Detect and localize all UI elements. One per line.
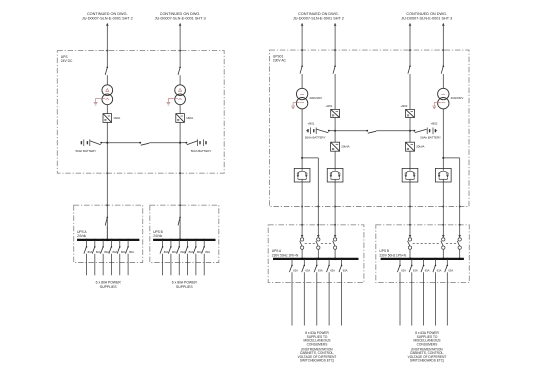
node wire crossing box edge (443.3,50.1)	[442, 49, 444, 51]
breaker 80A UPS A ckt3	[102, 240, 104, 247]
wire T2 to rectifier	[179, 105, 181, 114]
wire incoming feeder L2 with off-page arrow	[179, 23, 182, 26]
svg-text:63A: 63A	[425, 268, 430, 272]
breaker 80A UPS A ckt5	[119, 240, 121, 247]
svg-text:63A: 63A	[437, 268, 442, 272]
breaker 80A UPS A ckt6	[127, 240, 129, 247]
node wire crossing box edge (335.1,206.5)	[334, 206, 336, 208]
svg-text:+R01: +R01	[326, 104, 333, 108]
wire SI1 to panel	[334, 182, 336, 237]
switch battery +B02	[410, 130, 414, 132]
node wire crossing box edge (335.1,224.8)	[334, 224, 336, 226]
node busbar joint UPS A x302.1	[301, 258, 304, 261]
wire incoming AC feeder T2 with off-page arrow	[442, 23, 445, 26]
ground (transformer T2 neutral earth)	[168, 98, 178, 102]
wire outgoing UPS B ckt3	[423, 272, 425, 325]
breaker 63A UPS B ckt3	[423, 259, 425, 266]
breaker 80A UPS B ckt5	[195, 240, 197, 247]
switch battery +B01	[317, 129, 329, 132]
node busbar tap UPS B ckt6	[203, 239, 205, 241]
busbar UPS A 24Vdc	[77, 239, 139, 241]
wire outgoing UPS A ckt1	[86, 254, 88, 275]
wire outgoing UPS B ckt5	[195, 254, 197, 275]
node wire crossing box edge (410.0,224.8)	[409, 224, 411, 226]
node wire crossing box edge (180.1,50.6)	[179, 50, 181, 52]
wire outgoing UPS B ckt4	[435, 272, 437, 325]
node wire crossing box edge (107.3,50.6)	[106, 50, 108, 52]
wire TR02 to static switch	[442, 109, 444, 168]
wire outgoing UPS A ckt2	[94, 254, 96, 275]
battery BT1 50Ah	[80, 141, 82, 144]
node busbar tap UPS B ckt2	[411, 258, 413, 260]
disconnect switch AC feeder T1	[301, 65, 303, 67]
svg-text:63A: 63A	[343, 268, 348, 272]
wire interlock dashed UPS B Q1-Q2	[413, 242, 441, 244]
breaker 63A UPS B ckt4	[435, 259, 437, 266]
node wire crossing box edge (302.1,224.8)	[301, 224, 303, 226]
svg-text:JU-D0007-SLN-E-0001 SHT 3: JU-D0007-SLN-E-0001 SHT 3	[401, 16, 452, 20]
wire interlock dashed UPS A Q2-Q3	[321, 242, 333, 244]
drawout incomer breaker UPS B Q3	[458, 235, 461, 238]
svg-text:80A: 80A	[104, 250, 109, 254]
distribution panel UPS A 24Vdc enclosure	[74, 205, 143, 262]
breaker 63A UPS A ckt1	[291, 259, 293, 266]
node busbar tap UPS A ckt4	[110, 239, 112, 241]
wire interlock dashed UPS A Q1-Q2	[305, 242, 316, 244]
static bypass switch SS2 (transformer path)	[435, 168, 451, 182]
breaker 80A UPS A ckt2	[94, 240, 96, 247]
wire outgoing UPS B ckt6	[203, 254, 205, 275]
node busbar tap UPS A ckt2	[94, 239, 96, 241]
wire bypass branch T2	[443, 157, 459, 159]
rectifier +R02	[406, 109, 415, 117]
wire interlock dashed UPS B Q2-Q3	[446, 242, 457, 244]
transformer TR01 400/230V	[296, 88, 307, 99]
breaker 80A UPS A ckt1	[86, 240, 88, 247]
tie switch DC bus	[139, 142, 141, 144]
node busbar joint UPS A x335.1	[334, 258, 337, 261]
wire rectifier G1 output down to distribution	[106, 122, 108, 239]
node DC link junction R2	[409, 130, 411, 132]
svg-text:UPS: UPS	[61, 55, 69, 59]
node wire crossing box edge (410.0,206.5)	[409, 206, 411, 208]
node busbar tap UPS B ckt1	[399, 258, 401, 260]
svg-text:50Ah BATTERY: 50Ah BATTERY	[191, 149, 212, 153]
wire outgoing UPS A ckt3	[102, 254, 104, 275]
wire incoming feeder L1 with off-page arrow	[106, 23, 109, 26]
breaker 80A UPS B ckt1	[162, 240, 164, 247]
static bypass switch SI2 (inverter path)	[402, 168, 418, 182]
wire outgoing UPS A ckt4	[110, 254, 112, 275]
node wire crossing box edge (459.7,224.8)	[459, 224, 461, 226]
svg-text:CONSUMERS: CONSUMERS	[417, 342, 438, 346]
breaker 63A UPS B ckt1	[399, 259, 401, 266]
node DC junction feeder L2 / battery tie	[179, 142, 181, 144]
tie switch right section	[366, 130, 368, 132]
svg-text:JU-D0007-SLN-E-0001 SHT 2: JU-D0007-SLN-E-0001 SHT 2	[82, 16, 133, 20]
disconnect switch AC feeder R2	[409, 65, 411, 67]
battery +B02 50Ah	[426, 128, 428, 135]
svg-text:UPS B: UPS B	[379, 249, 389, 253]
svg-text:SUPPLIES: SUPPLIES	[100, 285, 117, 289]
node busbar tap UPS B ckt4	[186, 239, 188, 241]
svg-text:+R02: +R02	[400, 104, 407, 108]
transformer TR02 400/230V	[438, 88, 449, 99]
rectifier/charger G2 160A	[176, 114, 185, 123]
wire outgoing UPS B ckt2	[170, 254, 172, 275]
svg-text:SUPPLIES: SUPPLIES	[176, 285, 193, 289]
svg-text:80A: 80A	[180, 250, 185, 254]
wire outgoing UPS A ckt2	[303, 272, 305, 325]
svg-text:CONTINUED ON DWG.: CONTINUED ON DWG.	[87, 12, 128, 16]
busbar UPS B 24Vdc	[153, 239, 215, 241]
svg-text:80A: 80A	[172, 250, 177, 254]
svg-text:63A: 63A	[330, 268, 335, 272]
wire inverter R1 to static switch	[334, 151, 336, 168]
node busbar tap UPS A ckt1	[85, 239, 87, 241]
node busbar tap UPS A ckt3	[316, 258, 318, 260]
disconnect switch AC feeder T2	[443, 65, 445, 67]
node busbar tap UPS A ckt5	[341, 258, 343, 260]
wire bypass branch T1	[302, 157, 318, 159]
svg-text:CONTINUED ON DWG.: CONTINUED ON DWG.	[298, 12, 339, 16]
svg-text:63A: 63A	[413, 268, 418, 272]
svg-text:SWITCHBOARDS ETC): SWITCHBOARDS ETC)	[300, 359, 334, 363]
wire outgoing UPS B ckt3	[178, 254, 180, 275]
wire incoming AC feeder R1 with off-page arrow	[334, 23, 337, 26]
breaker 63A UPS B ckt5	[446, 259, 448, 266]
drawout incomer breaker UPS A Q3	[334, 235, 337, 238]
node wire crossing box edge (410.0,50.1)	[409, 49, 411, 51]
svg-text:80A: 80A	[197, 250, 202, 254]
switch battery BT1	[90, 141, 101, 145]
svg-text:UPS01: UPS01	[273, 54, 284, 58]
ground (transformer TR01 earth)	[293, 103, 300, 106]
svg-text:50Ah BATTERY: 50Ah BATTERY	[75, 149, 96, 153]
svg-text:400/230V: 400/230V	[451, 96, 464, 100]
disconnect switch AC feeder R1	[334, 65, 336, 67]
rectifier +R01	[331, 109, 340, 117]
svg-text:UPS B: UPS B	[153, 230, 163, 234]
wire outgoing UPS B ckt1	[399, 272, 401, 325]
svg-text:230V 50Hz 1Ph+N: 230V 50Hz 1Ph+N	[379, 254, 406, 258]
inverter 20kVA feeder R1	[331, 142, 340, 151]
breaker 80A UPS B ckt4	[187, 240, 189, 247]
wire outgoing UPS A ckt4	[328, 272, 330, 325]
ground (transformer T1 neutral earth)	[96, 98, 106, 102]
svg-text:63A: 63A	[293, 268, 298, 272]
breaker 80A UPS B ckt2	[170, 240, 172, 247]
svg-text:CONSUMERS: CONSUMERS	[307, 342, 328, 346]
wire outgoing UPS B ckt4	[187, 254, 189, 275]
inverter 20kVA feeder R2	[406, 142, 415, 151]
svg-text:230V 50Hz 1Ph+N: 230V 50Hz 1Ph+N	[272, 254, 299, 258]
svg-text:63A: 63A	[305, 268, 310, 272]
node wire crossing box edge (180.1,173.2)	[179, 172, 181, 174]
incomer switch UPS A	[107, 217, 109, 219]
svg-text:80A: 80A	[113, 250, 118, 254]
busbar UPS B 230V	[381, 258, 464, 260]
svg-text:24V DC: 24V DC	[61, 59, 73, 63]
wire outgoing UPS B ckt1	[162, 254, 164, 275]
wire T1 to rectifier	[106, 105, 108, 114]
node busbar joint UPS A x318.3	[317, 258, 320, 261]
svg-text:63A: 63A	[448, 268, 453, 272]
drawout incomer breaker UPS B Q1	[409, 235, 412, 238]
node busbar tap UPS A ckt1	[291, 258, 293, 260]
wire incoming AC feeder R2 with off-page arrow	[409, 23, 412, 26]
wire outgoing UPS A ckt5	[119, 254, 121, 275]
node wire crossing box edge (335.1,50.1)	[334, 49, 336, 51]
svg-text:JU-D0007-SLN-E-0001 SHT 3: JU-D0007-SLN-E-0001 SHT 3	[155, 16, 206, 20]
switch battery BT2	[180, 142, 186, 144]
distribution panel UPS A 230V enclosure	[268, 225, 364, 283]
svg-text:80A: 80A	[96, 250, 101, 254]
rectifier/charger G1 160A	[103, 114, 112, 123]
UPS01 230V AC enclosure (dash-dot boundary)	[270, 50, 470, 206]
ground (transformer TR02 earth)	[434, 103, 441, 106]
node wire crossing box edge (318.3,224.8)	[317, 224, 319, 226]
node busbar tap UPS B ckt1	[162, 239, 164, 241]
node busbar joint feeder UPS B	[179, 239, 182, 242]
svg-text:+B01: +B01	[308, 122, 315, 126]
breaker 80A UPS B ckt6	[203, 240, 205, 247]
svg-text:UPS A: UPS A	[77, 230, 87, 234]
wire outgoing UPS A ckt1	[291, 272, 293, 325]
svg-text:80A: 80A	[205, 250, 210, 254]
svg-text:50Ah BATTERY: 50Ah BATTERY	[305, 135, 326, 139]
static bypass switch SI1 (inverter path)	[327, 168, 343, 182]
node wire crossing box edge (443.3,206.5)	[442, 206, 444, 208]
svg-text:CONTINUED ON DWG.: CONTINUED ON DWG.	[160, 12, 201, 16]
svg-text:+B02: +B02	[431, 122, 438, 126]
svg-text:63A: 63A	[318, 268, 323, 272]
busbar UPS A 230V	[273, 258, 359, 260]
wire outgoing UPS B ckt2	[411, 272, 413, 325]
node busbar tap UPS B ckt3	[423, 258, 425, 260]
drawout incomer breaker UPS A Q2	[317, 235, 320, 238]
node busbar tap UPS A ckt6	[127, 239, 129, 241]
node busbar tap UPS B ckt4	[434, 258, 436, 260]
wire incoming AC feeder T1 with off-page arrow	[301, 23, 304, 26]
wire outgoing UPS B ckt5	[446, 272, 448, 325]
node busbar tap UPS B ckt3	[178, 239, 180, 241]
svg-text:80A: 80A	[88, 250, 93, 254]
breaker 80A UPS A ckt4	[110, 240, 112, 247]
svg-text:SWITCHBOARDS ETC): SWITCHBOARDS ETC)	[410, 359, 444, 363]
transformer T2 (rectifier input)	[175, 85, 186, 96]
svg-text:24Vdc: 24Vdc	[77, 234, 86, 238]
drawout incomer breaker UPS A Q1	[301, 235, 304, 238]
svg-text:80A: 80A	[189, 250, 194, 254]
svg-text:50Ah BATTERY: 50Ah BATTERY	[420, 135, 441, 139]
battery BT2 50Ah	[197, 139, 199, 146]
node busbar joint UPS B x459.7	[458, 258, 461, 261]
breaker 63A UPS A ckt2	[303, 259, 305, 266]
node busbar joint feeder UPS A	[106, 239, 109, 242]
breaker 63A UPS A ckt4	[328, 259, 330, 266]
wire SS2 to panel	[442, 182, 444, 237]
drawout incomer breaker UPS B Q2	[442, 235, 445, 238]
breaker 63A UPS B ckt2	[411, 259, 413, 266]
wire TR01 to static switch	[301, 109, 303, 168]
wire outgoing UPS A ckt5	[341, 272, 343, 325]
static bypass switch SS1 (transformer path)	[294, 168, 310, 182]
svg-text:24Vdc: 24Vdc	[153, 234, 162, 238]
breaker 63A UPS A ckt5	[341, 259, 343, 266]
node wire crossing box edge (302.1,206.5)	[301, 206, 303, 208]
svg-text:CONTINUED ON DWG.: CONTINUED ON DWG.	[406, 12, 447, 16]
node bypass tap T2	[442, 157, 444, 159]
distribution panel UPS B 230V enclosure	[376, 225, 470, 283]
wire inverter R2 to static switch	[409, 151, 411, 168]
wire DC tie bus	[107, 142, 140, 144]
node busbar tap UPS B ckt2	[170, 239, 172, 241]
wire SS1 to panel	[301, 182, 303, 237]
node DC junction feeder L1 / battery tie	[106, 142, 108, 144]
distribution panel UPS B 24Vdc enclosure	[150, 205, 219, 262]
node busbar joint UPS B x410.0	[409, 258, 412, 261]
wire rectifier G2 output down to distribution	[179, 122, 181, 239]
svg-text:230V AC: 230V AC	[273, 59, 287, 63]
svg-text:160A: 160A	[113, 116, 120, 120]
wire outgoing UPS A ckt3	[316, 272, 318, 325]
wire AC/DC tie bus right section	[335, 130, 367, 132]
node busbar tap UPS A ckt3	[102, 239, 104, 241]
transformer T1 (rectifier input)	[102, 85, 113, 96]
node bypass tap T1	[301, 157, 303, 159]
node busbar tap UPS B ckt5	[195, 239, 197, 241]
node wire crossing box edge (107.3,205.2)	[106, 204, 108, 206]
node wire crossing box edge (107.3,173.2)	[106, 172, 108, 174]
wire outgoing UPS A ckt6	[127, 254, 129, 275]
svg-text:JU-D0007-SLN-E-0001 SHT 2: JU-D0007-SLN-E-0001 SHT 2	[293, 16, 344, 20]
disconnect switch S1 (24V feeder)	[107, 67, 109, 69]
node wire crossing box edge (443.3,224.8)	[442, 224, 444, 226]
node wire crossing box edge (180.1,205.2)	[179, 204, 181, 206]
node busbar tap UPS A ckt4	[328, 258, 330, 260]
disconnect switch S2 (24V feeder)	[179, 67, 181, 69]
svg-text:UPS A: UPS A	[272, 249, 282, 253]
battery +B01 50Ah	[307, 129, 309, 132]
svg-text:20kVA: 20kVA	[341, 144, 349, 148]
UPS 24V DC enclosure (dash-dot boundary)	[57, 51, 224, 174]
svg-text:160A: 160A	[186, 116, 193, 120]
node busbar tap UPS A ckt2	[303, 258, 305, 260]
wire SI2 to panel	[409, 182, 411, 237]
svg-text:80A: 80A	[121, 250, 126, 254]
svg-text:20kVA: 20kVA	[416, 144, 424, 148]
node busbar tap UPS A ckt5	[119, 239, 121, 241]
node busbar tap UPS B ckt5	[446, 258, 448, 260]
svg-text:80A: 80A	[129, 250, 134, 254]
breaker 80A UPS B ckt3	[178, 240, 180, 247]
node wire crossing box edge (459.7,206.5)	[459, 206, 461, 208]
breaker 63A UPS A ckt3	[316, 259, 318, 266]
svg-text:63A: 63A	[401, 268, 406, 272]
svg-text:80A: 80A	[164, 250, 169, 254]
svg-text:400/230V: 400/230V	[309, 96, 322, 100]
node busbar joint UPS B x443.3	[442, 258, 445, 261]
wire rectifier +R02 to inverter	[409, 118, 411, 143]
incomer switch UPS B	[179, 217, 181, 219]
wire rectifier +R01 to inverter	[334, 118, 336, 143]
node wire crossing box edge (302.1,50.1)	[301, 49, 303, 51]
node DC link junction R1	[334, 130, 336, 132]
node wire crossing box edge (318.3,206.5)	[317, 206, 319, 208]
